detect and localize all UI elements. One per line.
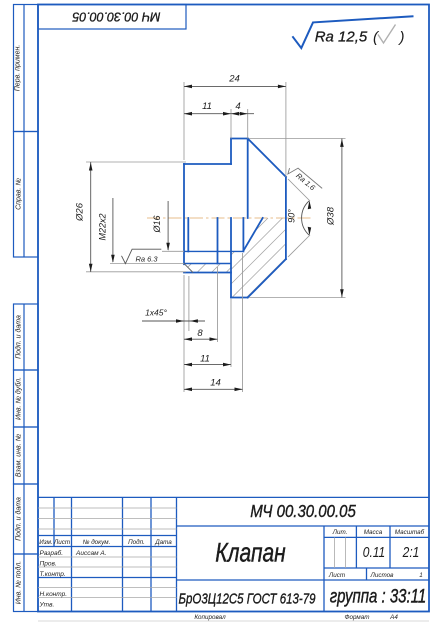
svg-text:Н.контр.: Н.контр. bbox=[40, 591, 68, 598]
svg-text:24: 24 bbox=[228, 74, 240, 85]
svg-text:Т.контр.: Т.контр. bbox=[40, 571, 66, 578]
svg-text:Справ. №: Справ. № bbox=[16, 178, 23, 210]
svg-text:14: 14 bbox=[210, 378, 221, 389]
svg-text:0.11: 0.11 bbox=[363, 544, 385, 560]
svg-text:Листов: Листов bbox=[370, 572, 395, 579]
svg-text:Дата: Дата bbox=[154, 539, 172, 546]
svg-text:8: 8 bbox=[197, 328, 203, 339]
svg-text:Подп. и дата: Подп. и дата bbox=[15, 497, 23, 541]
svg-text:МЧ 00.30.00.05: МЧ 00.30.00.05 bbox=[250, 502, 357, 521]
svg-text:МЧ 00.30.00.05: МЧ 00.30.00.05 bbox=[72, 10, 160, 24]
svg-text:): ) bbox=[398, 29, 405, 46]
svg-text:Подп. и дата: Подп. и дата bbox=[15, 315, 23, 359]
svg-text:Ra 12,5: Ra 12,5 bbox=[315, 29, 368, 46]
svg-text:Формат: Формат bbox=[344, 614, 369, 621]
svg-text:Инв. № дубл.: Инв. № дубл. bbox=[15, 377, 23, 420]
svg-text:11: 11 bbox=[202, 101, 212, 112]
svg-text:2:1: 2:1 bbox=[402, 544, 420, 560]
svg-text:Ø26: Ø26 bbox=[75, 202, 86, 222]
svg-text:Ra 6.3: Ra 6.3 bbox=[135, 255, 158, 264]
svg-text:М22х2: М22х2 bbox=[98, 213, 108, 240]
svg-text:Лист: Лист bbox=[53, 539, 70, 546]
svg-text:Утв.: Утв. bbox=[39, 602, 55, 609]
svg-text:Лист: Лист bbox=[328, 572, 345, 579]
svg-text:Разраб.: Разраб. bbox=[40, 549, 64, 557]
svg-text:Лит.: Лит. bbox=[332, 529, 348, 536]
svg-text:А4: А4 bbox=[389, 614, 398, 621]
svg-text:Взам. инв. №: Взам. инв. № bbox=[16, 433, 23, 477]
svg-text:Масштаб: Масштаб bbox=[395, 528, 425, 536]
svg-text:Инв. № подл.: Инв. № подл. bbox=[15, 561, 23, 604]
svg-text:90°: 90° bbox=[287, 209, 297, 223]
svg-text:№ докум.: № докум. bbox=[83, 538, 111, 546]
svg-text:1х45°: 1х45° bbox=[145, 308, 167, 318]
svg-text:1: 1 bbox=[419, 572, 423, 579]
svg-text:Аиссам А.: Аиссам А. bbox=[75, 550, 107, 557]
svg-text:Перв. примен.: Перв. примен. bbox=[15, 45, 22, 92]
svg-text:группа : 33:11: группа : 33:11 bbox=[330, 585, 426, 607]
svg-text:(: ( bbox=[373, 29, 380, 46]
svg-text:Ø16: Ø16 bbox=[152, 215, 162, 233]
svg-text:Ø38: Ø38 bbox=[326, 206, 337, 226]
svg-text:Подп.: Подп. bbox=[128, 538, 145, 546]
svg-text:4: 4 bbox=[235, 101, 240, 112]
svg-text:11: 11 bbox=[200, 354, 210, 365]
svg-text:Копировал: Копировал bbox=[194, 614, 226, 621]
svg-text:БрО3Ц12С5 ГОСТ 613-79: БрО3Ц12С5 ГОСТ 613-79 bbox=[179, 590, 316, 607]
svg-text:Клапан: Клапан bbox=[215, 538, 285, 568]
svg-text:Изм.: Изм. bbox=[39, 539, 52, 546]
svg-text:Пров.: Пров. bbox=[40, 561, 57, 568]
svg-text:Масса: Масса bbox=[364, 529, 383, 536]
